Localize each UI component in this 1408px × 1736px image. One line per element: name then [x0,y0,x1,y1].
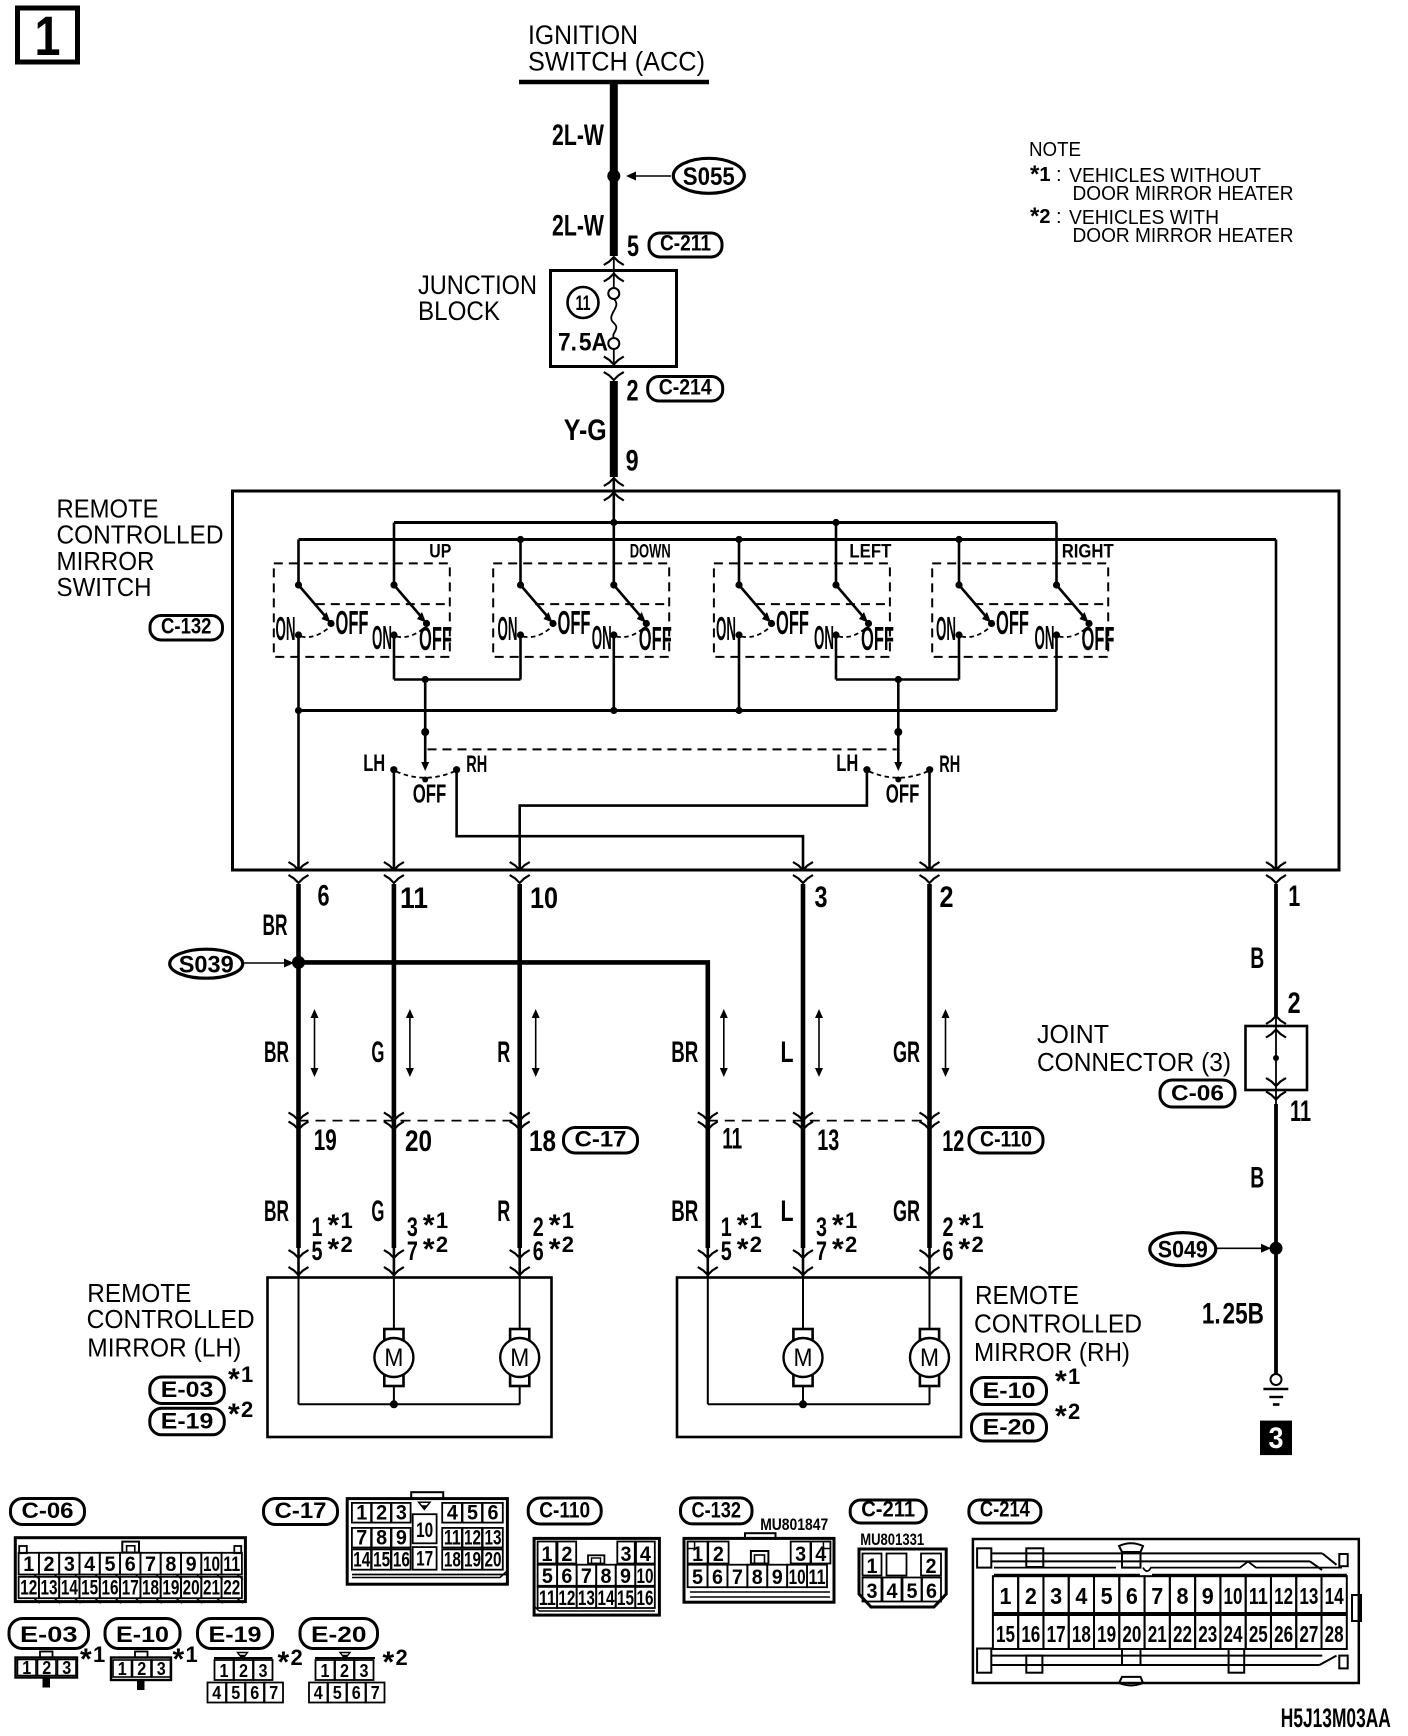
svg-text:2: 2 [341,1232,353,1257]
svg-text:14: 14 [597,1587,614,1610]
svg-text:C-17: C-17 [275,1498,327,1523]
svg-text:B: B [1250,1162,1264,1195]
svg-text:9: 9 [626,445,639,478]
svg-text:1: 1 [93,1642,105,1667]
svg-text:1: 1 [321,1661,330,1681]
svg-text:18: 18 [529,1125,556,1158]
svg-text:M: M [920,1344,939,1372]
svg-text:12: 12 [1274,1583,1293,1609]
svg-text:C-211: C-211 [861,1497,915,1522]
svg-text:ON: ON [1035,619,1055,656]
svg-text:RIGHT: RIGHT [1062,542,1114,563]
svg-text:UP: UP [429,542,451,563]
svg-text:8: 8 [376,1527,387,1550]
svg-text:CONTROLLED: CONTROLLED [974,1309,1142,1339]
svg-text:5: 5 [627,230,639,263]
svg-text:21: 21 [203,1577,220,1600]
svg-text:8: 8 [600,1565,611,1588]
svg-text:3: 3 [1050,1583,1062,1609]
svg-text:13: 13 [817,1124,839,1157]
svg-text:20: 20 [405,1125,432,1158]
svg-text:BR: BR [671,1195,698,1228]
svg-text:7: 7 [371,1683,380,1703]
svg-text:7: 7 [407,1236,418,1266]
svg-text:16: 16 [101,1577,118,1600]
svg-text:6: 6 [926,1580,937,1603]
svg-text:Y-G: Y-G [564,414,607,447]
svg-text:JOINT: JOINT [1037,1019,1109,1049]
svg-text:14: 14 [353,1549,370,1572]
svg-text:20: 20 [485,1549,502,1572]
svg-text:1: 1 [23,1553,34,1576]
svg-text:3: 3 [64,1553,75,1576]
svg-text:E-19: E-19 [209,1622,262,1647]
svg-text:3: 3 [795,1543,806,1566]
svg-text:27: 27 [1299,1621,1318,1647]
svg-text:16: 16 [637,1587,654,1610]
svg-text:*: * [228,1363,240,1396]
svg-text:1: 1 [436,1208,448,1233]
svg-text:1: 1 [867,1555,878,1578]
svg-text:10: 10 [203,1553,220,1576]
svg-text:3: 3 [621,1543,632,1566]
svg-text:MIRROR (RH): MIRROR (RH) [974,1337,1130,1367]
svg-text:*: * [383,1646,395,1679]
svg-text:1: 1 [562,1208,574,1233]
svg-text:16: 16 [393,1549,410,1572]
svg-text:RH: RH [466,751,487,778]
svg-text:4: 4 [640,1543,651,1566]
svg-text:1: 1 [356,1502,367,1525]
svg-text:19: 19 [1097,1621,1116,1647]
svg-text:1: 1 [692,1543,703,1566]
svg-text:ON: ON [936,610,956,647]
svg-text:13: 13 [578,1587,595,1610]
svg-text:REMOTE: REMOTE [975,1280,1079,1310]
svg-text:MU801847: MU801847 [760,1515,828,1534]
svg-text:*: * [549,1233,561,1266]
svg-text:8: 8 [752,1566,763,1589]
svg-text:6: 6 [250,1683,259,1703]
svg-text:OFF: OFF [1082,620,1115,657]
svg-text:RH: RH [939,751,960,778]
svg-text:11: 11 [539,1587,556,1610]
svg-text:IGNITION: IGNITION [528,20,638,50]
svg-text:*: * [423,1233,435,1266]
svg-text:M: M [794,1344,813,1372]
svg-text:MU801331: MU801331 [860,1530,924,1549]
svg-text:1: 1 [1000,1583,1012,1609]
svg-text:7: 7 [732,1566,743,1589]
svg-text:*: * [173,1643,185,1676]
svg-text:G: G [371,1195,384,1228]
svg-text:E-03: E-03 [161,1377,214,1402]
svg-text:11: 11 [1249,1583,1268,1609]
svg-text:BLOCK: BLOCK [418,296,500,326]
svg-text:25: 25 [1249,1621,1268,1647]
svg-text:2L-W: 2L-W [552,119,604,152]
svg-text:2: 2 [44,1553,55,1576]
svg-text:*: * [278,1646,290,1679]
svg-text:1: 1 [972,1208,984,1233]
svg-text:2: 2 [845,1232,857,1257]
svg-text:1: 1 [186,1642,198,1667]
svg-text:DOOR MIRROR HEATER: DOOR MIRROR HEATER [1073,183,1294,205]
svg-text:15: 15 [373,1549,390,1572]
svg-text:ON: ON [814,619,834,656]
svg-text:G: G [371,1036,384,1069]
svg-text:20: 20 [1122,1621,1141,1647]
svg-text:2: 2 [1025,1583,1037,1609]
svg-text:ON: ON [372,619,392,656]
svg-text:LH: LH [363,750,385,777]
svg-text:9: 9 [620,1565,631,1588]
svg-text:15: 15 [617,1587,634,1610]
svg-text:17: 17 [1047,1621,1066,1647]
svg-text:CONTROLLED: CONTROLLED [57,520,224,550]
svg-text:1: 1 [35,4,61,67]
svg-text:11: 11 [400,882,428,915]
svg-text:5: 5 [721,1236,732,1266]
svg-text:H5J13M03AA: H5J13M03AA [1281,1703,1391,1733]
svg-text:5: 5 [907,1580,918,1603]
svg-text:17: 17 [122,1577,139,1600]
svg-text:C-132: C-132 [161,614,212,639]
svg-text:OFF: OFF [776,604,809,641]
svg-text:10: 10 [530,882,558,915]
svg-text:4: 4 [1075,1583,1087,1609]
svg-text:1: 1 [1288,880,1300,913]
svg-text:ON: ON [716,610,736,647]
svg-text:ON: ON [498,610,518,647]
svg-text:3: 3 [1269,1422,1284,1455]
svg-text:7: 7 [356,1527,367,1550]
svg-text:3: 3 [815,881,828,914]
svg-text:M: M [510,1344,529,1372]
svg-text:*: * [1055,1400,1067,1433]
svg-text:ON: ON [276,610,296,647]
svg-text:10: 10 [789,1566,806,1589]
svg-text:11: 11 [444,1527,461,1550]
svg-text:5: 5 [231,1683,240,1703]
svg-text:DOOR MIRROR HEATER: DOOR MIRROR HEATER [1073,225,1294,247]
svg-text:2: 2 [137,1659,146,1679]
svg-text:2: 2 [940,881,954,914]
svg-text:19: 19 [162,1577,179,1600]
svg-text:OFF: OFF [558,604,591,641]
svg-text:18: 18 [1072,1621,1091,1647]
svg-text:R: R [497,1036,510,1069]
svg-text:S049: S049 [1158,1237,1208,1264]
svg-text:OFF: OFF [861,620,894,657]
svg-text:20: 20 [183,1577,200,1600]
svg-text:4: 4 [447,1502,458,1525]
svg-text:ON: ON [592,619,612,656]
svg-text:16: 16 [1021,1621,1040,1647]
svg-text:C-110: C-110 [539,1498,590,1523]
svg-text:R: R [497,1195,510,1228]
svg-text:GR: GR [893,1195,920,1228]
svg-text:11: 11 [722,1123,742,1156]
svg-text:7. 5A: 7. 5A [558,329,608,357]
svg-text:SWITCH: SWITCH [57,572,152,602]
svg-text:21: 21 [1148,1621,1167,1647]
svg-text:3: 3 [259,1661,268,1681]
svg-text:8: 8 [1176,1583,1188,1609]
svg-text:2: 2 [627,375,639,408]
svg-text:BR: BR [263,909,288,942]
svg-text:2: 2 [562,1232,574,1257]
svg-text:3: 3 [157,1659,166,1679]
svg-text:*: * [959,1233,971,1266]
svg-text:11: 11 [223,1553,240,1576]
svg-text:BR: BR [264,1036,289,1069]
svg-text:2: 2 [750,1232,762,1257]
svg-text:S039: S039 [179,951,234,978]
svg-text:15: 15 [81,1577,98,1600]
svg-text:L: L [781,1036,794,1069]
svg-text:19: 19 [464,1549,481,1572]
svg-text:6: 6 [712,1566,723,1589]
svg-text:15: 15 [996,1621,1015,1647]
svg-text:C-17: C-17 [575,1127,627,1152]
svg-text:5: 5 [467,1502,478,1525]
svg-text:5: 5 [542,1565,553,1588]
svg-text:C-06: C-06 [22,1498,74,1523]
svg-text:CONTROLLED: CONTROLLED [87,1304,255,1334]
svg-text:1: 1 [341,1208,353,1233]
svg-text:2: 2 [291,1645,303,1670]
svg-text:DOWN: DOWN [630,542,671,563]
svg-text:23: 23 [1198,1621,1217,1647]
svg-text:18: 18 [444,1549,461,1572]
svg-text:2: 2 [436,1232,448,1257]
svg-text:SWITCH (ACC): SWITCH (ACC) [528,47,705,77]
svg-text:5: 5 [333,1683,342,1703]
svg-text:6: 6 [125,1553,136,1576]
svg-text:24: 24 [1224,1621,1243,1647]
svg-text:E-20: E-20 [983,1415,1036,1440]
svg-text:BR: BR [264,1195,289,1228]
svg-text:NOTE: NOTE [1029,139,1081,161]
svg-text:*: * [80,1643,92,1676]
svg-text:*: * [832,1233,844,1266]
svg-text:12: 12 [942,1125,964,1158]
svg-text:26: 26 [1274,1621,1293,1647]
svg-text:7: 7 [816,1236,827,1266]
svg-text:8: 8 [165,1553,176,1576]
svg-text:9: 9 [1202,1583,1214,1609]
svg-text:10: 10 [637,1565,654,1588]
svg-text:2: 2 [239,1661,248,1681]
svg-text:6: 6 [533,1236,544,1266]
svg-text:*: * [328,1233,340,1266]
svg-text:1: 1 [22,1658,31,1678]
svg-text:2: 2 [713,1543,724,1566]
svg-text:11: 11 [1290,1095,1311,1128]
svg-text:GR: GR [893,1036,920,1069]
svg-text:4: 4 [815,1543,826,1566]
svg-text:14: 14 [61,1577,78,1600]
svg-text:9: 9 [186,1553,197,1576]
svg-text:2: 2 [561,1543,572,1566]
svg-text:13: 13 [41,1577,58,1600]
svg-text:S055: S055 [683,163,735,191]
svg-text:4: 4 [212,1683,221,1703]
svg-text:*1 :: *1 : [1030,161,1066,188]
svg-text:2: 2 [396,1645,408,1670]
svg-text:*2 :: *2 : [1030,203,1066,230]
svg-text:E-19: E-19 [161,1408,214,1433]
svg-text:*: * [737,1233,749,1266]
svg-text:12: 12 [558,1587,575,1610]
svg-text:E-20: E-20 [311,1622,367,1647]
svg-text:*: * [1055,1365,1067,1398]
svg-text:1. 25B: 1. 25B [1202,1298,1264,1331]
svg-text:11: 11 [809,1566,826,1589]
svg-text:3: 3 [360,1661,369,1681]
svg-text:1: 1 [541,1543,552,1566]
svg-text:10: 10 [1224,1583,1243,1609]
svg-text:2L-W: 2L-W [552,210,604,243]
svg-text:2: 2 [926,1555,937,1578]
svg-text:11: 11 [576,292,591,315]
svg-text:E-10: E-10 [116,1622,169,1647]
svg-text:1: 1 [220,1661,229,1681]
svg-text:C-06: C-06 [1171,1081,1224,1106]
svg-text:10: 10 [416,1519,433,1542]
svg-text:OFF: OFF [419,620,452,657]
svg-text:E-03: E-03 [20,1622,78,1647]
svg-text:9: 9 [396,1527,407,1550]
svg-text:2: 2 [376,1502,387,1525]
svg-text:5: 5 [104,1553,115,1576]
svg-text:14: 14 [1325,1583,1344,1609]
svg-text:18: 18 [142,1577,159,1600]
svg-text:7: 7 [581,1565,592,1588]
svg-text:7: 7 [269,1683,278,1703]
svg-text:6: 6 [943,1236,954,1266]
svg-text:C-214: C-214 [980,1497,1031,1522]
svg-text:12: 12 [20,1577,37,1600]
svg-text:*: * [228,1398,240,1431]
svg-text:28: 28 [1325,1621,1344,1647]
svg-text:OFF: OFF [639,620,672,657]
svg-text:LEFT: LEFT [849,542,891,563]
svg-text:L: L [781,1195,794,1228]
svg-text:OFF: OFF [996,604,1029,641]
svg-text:6: 6 [352,1683,361,1703]
svg-text:C-211: C-211 [660,231,711,256]
svg-text:C-132: C-132 [692,1497,742,1522]
svg-text:2: 2 [972,1232,984,1257]
svg-text:1: 1 [241,1362,253,1387]
svg-text:7: 7 [145,1553,156,1576]
svg-text:4: 4 [887,1580,898,1603]
svg-text:2: 2 [241,1397,253,1422]
svg-text:13: 13 [1299,1583,1318,1609]
svg-text:5: 5 [1101,1583,1113,1609]
svg-text:1: 1 [118,1659,127,1679]
svg-text:6: 6 [561,1565,572,1588]
svg-text:4: 4 [84,1553,95,1576]
svg-text:C-110: C-110 [980,1127,1032,1152]
svg-text:OFF: OFF [413,779,447,809]
svg-text:C-214: C-214 [659,375,713,400]
svg-text:1: 1 [750,1208,762,1233]
svg-text:2: 2 [42,1658,51,1678]
svg-text:22: 22 [223,1577,240,1600]
svg-text:19: 19 [314,1124,337,1157]
svg-text:B: B [1250,942,1264,975]
svg-text:2: 2 [340,1661,349,1681]
svg-text:4: 4 [314,1683,323,1703]
svg-text:OFF: OFF [886,779,920,809]
svg-text:1: 1 [1068,1364,1080,1389]
svg-text:12: 12 [464,1527,481,1550]
svg-text:6: 6 [318,880,330,913]
svg-text:OFF: OFF [336,604,369,641]
svg-text:M: M [384,1344,403,1372]
svg-text:3: 3 [867,1580,878,1603]
svg-text:2: 2 [1288,987,1301,1020]
svg-text:1: 1 [845,1208,857,1233]
svg-text:MIRROR (LH): MIRROR (LH) [87,1333,241,1363]
svg-text:6: 6 [1126,1583,1138,1609]
svg-text:CONNECTOR (3): CONNECTOR (3) [1037,1047,1231,1077]
svg-text:9: 9 [772,1566,783,1589]
svg-text:LH: LH [836,750,858,777]
svg-text:5: 5 [692,1566,703,1589]
svg-text:3: 3 [62,1658,71,1678]
svg-text:17: 17 [416,1548,433,1571]
svg-text:7: 7 [1151,1583,1163,1609]
svg-text:3: 3 [396,1502,407,1525]
svg-text:5: 5 [312,1236,323,1266]
svg-text:E-10: E-10 [983,1378,1036,1403]
svg-text:BR: BR [671,1036,698,1069]
svg-text:13: 13 [485,1527,502,1550]
svg-text:2: 2 [1068,1399,1080,1424]
svg-text:22: 22 [1173,1621,1192,1647]
svg-text:6: 6 [488,1502,499,1525]
